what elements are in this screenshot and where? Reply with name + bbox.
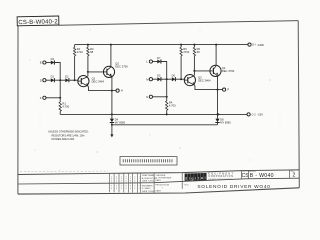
clamp rail — [112, 124, 218, 126]
junction — [166, 113, 168, 115]
resistor R2 4700 — [74, 45, 76, 48]
svg-text:D2: D2 — [65, 75, 69, 79]
wire — [166, 79, 168, 97]
transistor Q1 — [78, 76, 89, 87]
wire — [153, 96, 167, 98]
page border right — [298, 21, 299, 188]
wire — [46, 97, 60, 99]
junction — [166, 96, 168, 98]
diode D3 — [51, 61, 55, 65]
resistor R1 4,700 — [59, 98, 61, 102]
wire — [59, 80, 61, 98]
resistor R3 68 — [87, 45, 89, 48]
svg-text:F: F — [40, 96, 42, 100]
terminal C -15V — [247, 113, 250, 116]
svg-text:l: l — [205, 175, 206, 180]
wire — [74, 56, 76, 80]
junction — [193, 70, 195, 72]
wire — [88, 56, 104, 72]
output terminal P — [223, 88, 226, 91]
drawing number box CS-B-W040-2 — [17, 16, 59, 26]
clamp diode D4 — [111, 114, 113, 118]
clamp diode D8 — [217, 114, 219, 118]
DEC logo — [185, 174, 188, 181]
scan specks — [35, 150, 36, 151]
svg-text:-15V: -15V — [257, 113, 263, 117]
svg-text:DEC 3464: DEC 3464 — [92, 80, 105, 84]
wire: emitter down — [111, 77, 113, 115]
svg-text:D-I: D-I — [252, 44, 256, 47]
svg-text:DIODES ARE D-664: DIODES ARE D-664 — [52, 138, 75, 141]
svg-text:CS-B-W040-2: CS-B-W040-2 — [18, 19, 58, 26]
junction — [110, 44, 112, 46]
svg-text:2: 2 — [292, 173, 295, 179]
diode D1 — [51, 78, 55, 82]
wire — [59, 111, 61, 114]
output terminal H — [116, 89, 119, 92]
size code cell — [241, 171, 243, 179]
junction — [59, 97, 61, 99]
junction — [180, 44, 182, 46]
svg-text:DRAFTSMAN: DRAFTSMAN — [142, 174, 155, 177]
svg-text:DATE 7-28-64: DATE 7-28-64 — [142, 190, 156, 193]
wire — [153, 78, 158, 80]
rev cell — [289, 170, 291, 178]
svg-text:RESISTORS ARE 1/4W; 10%: RESISTORS ARE 1/4W; 10% — [52, 134, 86, 137]
junction — [87, 44, 89, 46]
svg-text:4700: 4700 — [183, 50, 189, 54]
page border bottom — [18, 188, 299, 194]
resistor R5 4700 — [180, 45, 182, 48]
svg-text:UNLESS OTHERWISE INDICATED:: UNLESS OTHERWISE INDICATED: — [48, 131, 89, 134]
svg-text:g: g — [191, 175, 193, 180]
svg-text:4,700: 4,700 — [169, 104, 176, 108]
title block top line — [18, 170, 299, 175]
svg-text:D3: D3 — [51, 57, 55, 61]
svg-text:DATE 7-28-64: DATE 7-28-64 — [142, 180, 156, 183]
junction — [217, 113, 219, 115]
svg-text:H: H — [121, 89, 123, 93]
junction — [217, 89, 219, 91]
wire — [88, 86, 116, 90]
svg-text:D: D — [40, 78, 42, 82]
svg-text:DATE: DATE — [156, 190, 162, 193]
junction — [111, 113, 113, 115]
ground terminal D — [248, 43, 251, 46]
junction — [59, 79, 61, 81]
svg-text:E: E — [40, 61, 42, 65]
svg-text:D5: D5 — [157, 74, 161, 78]
svg-text:68: 68 — [90, 50, 93, 54]
wire — [194, 56, 210, 71]
fold dashed line — [20, 170, 108, 173]
personnel dividers — [153, 173, 155, 193]
wire — [46, 62, 51, 64]
wire — [87, 72, 89, 76]
svg-text:B - W040: B - W040 — [250, 173, 274, 179]
svg-text:G. PORTER BUR: G. PORTER BUR — [156, 178, 172, 180]
svg-text:DATE: DATE — [156, 179, 162, 182]
wire: collector to top rail — [110, 45, 112, 67]
junction — [74, 79, 76, 81]
wire — [175, 78, 184, 80]
svg-text:68: 68 — [197, 50, 200, 54]
svg-text:N: N — [146, 95, 148, 99]
junction — [193, 44, 195, 46]
svg-text:MY 8085: MY 8085 — [115, 120, 126, 124]
svg-text:DEC 3790: DEC 3790 — [222, 69, 235, 73]
wire — [54, 79, 65, 81]
junction — [111, 124, 113, 126]
wire: emitter down — [217, 76, 219, 115]
wire — [54, 63, 60, 81]
svg-text:P: P — [227, 88, 229, 92]
svg-text:SOLENOID DRIVER WO40: SOLENOID DRIVER WO40 — [197, 184, 270, 190]
wire — [161, 78, 172, 80]
svg-text:PRODUCTION: PRODUCTION — [156, 184, 170, 186]
page border top — [59, 21, 298, 26]
page border left — [17, 24, 19, 194]
svg-text:TITLE: TITLE — [184, 184, 190, 186]
edge connector strip — [120, 157, 177, 165]
resistor R6 68 — [193, 45, 195, 48]
diode D6 — [172, 77, 176, 81]
transistor Q2 — [103, 66, 114, 77]
svg-text:CORPORATION: CORPORATION — [208, 175, 233, 178]
svg-text:GND: GND — [258, 43, 264, 47]
svg-text:DEC 3790: DEC 3790 — [115, 65, 128, 69]
svg-text:i: i — [195, 175, 196, 180]
svg-text:D1: D1 — [51, 75, 55, 79]
junction — [180, 78, 182, 80]
junction — [87, 71, 89, 73]
wire — [46, 79, 51, 81]
svg-text:d: d — [185, 176, 187, 181]
revision column text — [111, 177, 113, 191]
resistor R4 4,700 — [166, 97, 168, 101]
svg-text:D. GANO: D. GANO — [142, 187, 151, 190]
number cell — [247, 171, 249, 179]
svg-text:i: i — [189, 176, 190, 181]
svg-text:4,700: 4,700 — [62, 105, 69, 109]
junction — [166, 78, 168, 80]
junction — [215, 44, 217, 46]
wire: collector to top rail — [215, 45, 217, 66]
diode D5 — [157, 77, 161, 81]
top rail (GND bus) — [75, 44, 248, 46]
wire — [153, 61, 158, 63]
svg-text:MAYNARD. MASSACHUSETTS: MAYNARD. MASSACHUSETTS — [208, 178, 233, 181]
wire — [195, 85, 223, 89]
svg-text:D7: D7 — [157, 56, 161, 60]
svg-text:C-2: C-2 — [252, 114, 257, 117]
svg-text:D6: D6 — [172, 74, 176, 78]
diode D2 — [65, 78, 69, 82]
wire — [180, 56, 182, 79]
wire — [161, 62, 167, 80]
wire — [166, 110, 168, 114]
svg-text:MY 8085: MY 8085 — [220, 120, 231, 124]
svg-text:4700: 4700 — [77, 50, 83, 54]
wire — [69, 79, 78, 81]
diode D7 — [157, 60, 161, 64]
transistor Q4 — [210, 65, 221, 76]
svg-text:DEC 3464: DEC 3464 — [198, 79, 211, 83]
rail -15V — [60, 113, 247, 115]
arrow to -15V — [111, 125, 113, 135]
wire — [193, 71, 195, 75]
transistor Q3 — [184, 75, 195, 86]
junction — [111, 90, 113, 92]
title block middle line — [18, 178, 299, 184]
junction — [217, 113, 219, 115]
revision columns — [108, 173, 110, 192]
